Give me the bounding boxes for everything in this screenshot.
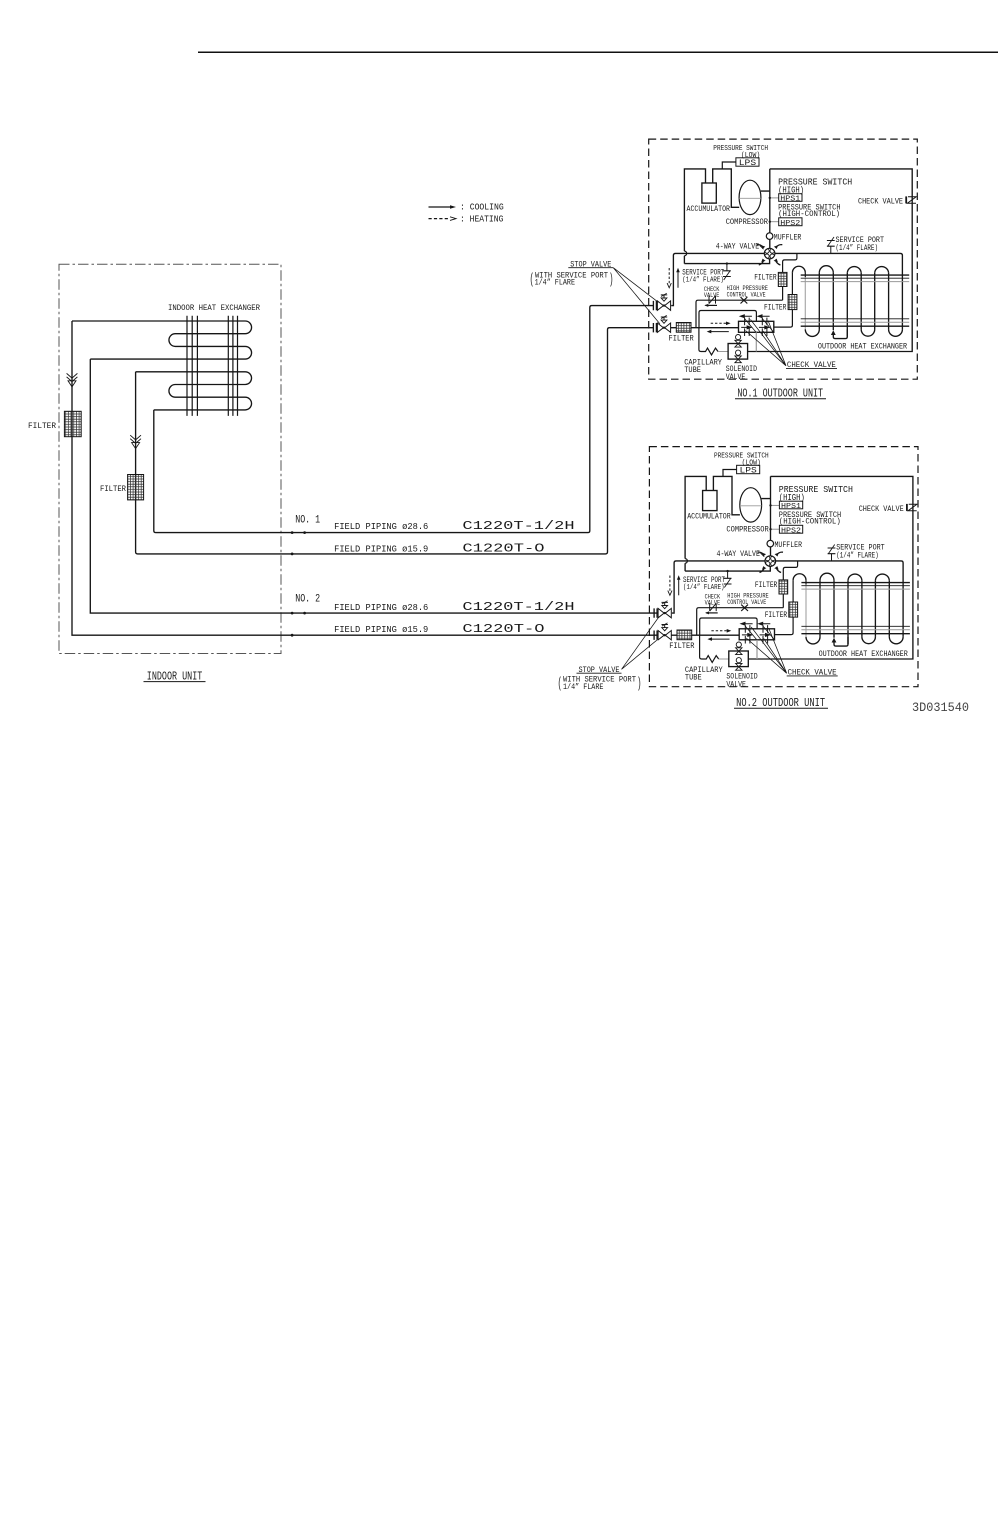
svg-text:INDOOR HEAT EXCHANGER: INDOOR HEAT EXCHANGER bbox=[168, 304, 260, 313]
svg-text:FILTER: FILTER bbox=[100, 485, 126, 494]
svg-text:: HEATING: : HEATING bbox=[460, 214, 503, 225]
NO.2 stop valve label bbox=[558, 666, 642, 693]
filter on v3 bbox=[128, 475, 144, 500]
svg-text:1/4” FLARE: 1/4” FLARE bbox=[535, 279, 576, 288]
svg-text:NO. 2: NO. 2 bbox=[295, 593, 320, 605]
legend cooling arrow bbox=[429, 202, 504, 213]
NO.1 stop valve leader lines bbox=[613, 268, 660, 324]
svg-text:C1220T-1/2H: C1220T-1/2H bbox=[462, 600, 574, 614]
svg-text:(: ( bbox=[530, 273, 535, 289]
NO.2 stop valve leader lines bbox=[622, 617, 659, 669]
filter on v1 bbox=[64, 411, 81, 436]
svg-text:1/4” FLARE: 1/4” FLARE bbox=[563, 683, 604, 692]
legend heating arrow bbox=[429, 214, 504, 225]
svg-text:C1220T-1/2H: C1220T-1/2H bbox=[462, 519, 574, 533]
heating arrow on v3 bbox=[130, 435, 141, 448]
top horizontal rule bbox=[198, 51, 998, 53]
svg-text:FILTER: FILTER bbox=[28, 422, 56, 431]
svg-text:FIELD PIPING ø15.9: FIELD PIPING ø15.9 bbox=[334, 624, 428, 635]
svg-text:: COOLING: : COOLING bbox=[460, 202, 504, 213]
indoor pipe v4 (gas to NO.1) bbox=[154, 306, 654, 533]
svg-text:(: ( bbox=[558, 677, 563, 693]
svg-text:): ) bbox=[609, 273, 614, 289]
NO.1 stop valve label bbox=[530, 260, 614, 288]
svg-text:C1220T-O: C1220T-O bbox=[462, 622, 544, 636]
NO.2 outdoor unit bbox=[649, 447, 918, 690]
svg-text:): ) bbox=[637, 677, 642, 693]
svg-text:NO. 1: NO. 1 bbox=[295, 515, 320, 527]
junction dots on field lines bbox=[291, 531, 294, 534]
svg-text:FIELD PIPING ø15.9: FIELD PIPING ø15.9 bbox=[334, 543, 428, 554]
svg-text:FIELD PIPING ø28.6: FIELD PIPING ø28.6 bbox=[334, 521, 428, 532]
svg-text:C1220T-O: C1220T-O bbox=[462, 541, 544, 555]
svg-text:3D031540: 3D031540 bbox=[912, 700, 969, 715]
indoor pipe v2 (liquid to NO.2) bbox=[90, 359, 658, 613]
indoor pipe v1 (gas to NO.2) bbox=[72, 321, 658, 635]
indoor heat exchanger coil serpentine bbox=[72, 321, 252, 410]
indoor pipe v3 (liquid to NO.1) bbox=[136, 328, 654, 554]
indoor heat exchanger fins bbox=[187, 316, 238, 416]
heating arrow on v1 bbox=[67, 373, 78, 386]
NO.1 outdoor unit bbox=[649, 139, 918, 382]
svg-text:FIELD PIPING ø28.6: FIELD PIPING ø28.6 bbox=[334, 602, 428, 613]
indoor unit dash-dot border box bbox=[59, 264, 281, 653]
